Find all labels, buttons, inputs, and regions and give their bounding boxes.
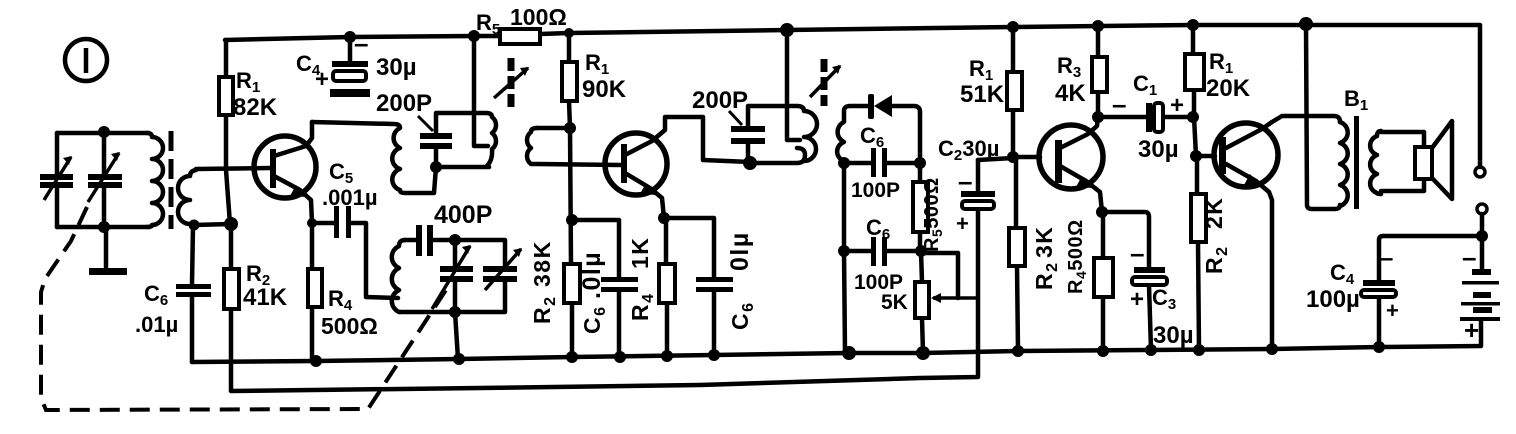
svg-text:C5: C5	[329, 159, 353, 187]
svg-text:200P: 200P	[376, 90, 432, 117]
svg-text:R1: R1	[585, 50, 609, 78]
svg-text:–: –	[958, 166, 972, 196]
svg-text:+: +	[1464, 315, 1479, 345]
svg-text:400P: 400P	[434, 201, 492, 229]
svg-text:R3: R3	[1057, 53, 1081, 81]
svg-text:R4500Ω: R4500Ω	[1065, 219, 1089, 294]
svg-text:–: –	[1130, 238, 1144, 268]
svg-text:R4: R4	[328, 286, 353, 314]
svg-text:4K: 4K	[1055, 80, 1086, 107]
svg-text:+: +	[1386, 298, 1399, 323]
svg-text:90K: 90K	[582, 76, 627, 103]
svg-text:–: –	[354, 28, 368, 58]
svg-text:C1: C1	[1133, 71, 1157, 99]
svg-text:100Ω: 100Ω	[510, 4, 567, 30]
svg-text:500Ω: 500Ω	[321, 313, 378, 339]
svg-text:C6: C6	[860, 123, 884, 151]
svg-text:R4: R4	[627, 292, 657, 321]
svg-text:R2: R2	[1201, 245, 1231, 274]
svg-text:C3: C3	[1152, 285, 1176, 313]
svg-text:–: –	[1380, 245, 1393, 272]
svg-text:82K: 82K	[233, 94, 278, 121]
svg-text:R1: R1	[1209, 49, 1233, 77]
svg-text:38K: 38K	[529, 240, 555, 287]
svg-text:100P: 100P	[851, 179, 900, 202]
svg-text:3K: 3K	[1031, 226, 1057, 258]
svg-text:C6: C6	[727, 301, 757, 330]
svg-text:2K: 2K	[1201, 197, 1227, 229]
svg-text:5K: 5K	[881, 291, 908, 314]
svg-text:R2: R2	[1031, 261, 1061, 290]
svg-text:–: –	[1112, 89, 1126, 119]
svg-text:.0lµ: .0lµ	[578, 251, 606, 299]
svg-text:30µ: 30µ	[1138, 136, 1179, 163]
svg-text:.01µ: .01µ	[135, 312, 178, 337]
svg-text:.001µ: .001µ	[322, 185, 378, 210]
svg-text:R5: R5	[476, 10, 500, 38]
svg-text:R1: R1	[236, 68, 260, 96]
svg-text:+: +	[1170, 92, 1184, 119]
svg-text:C4: C4	[1330, 260, 1355, 288]
svg-text:51K: 51K	[960, 81, 1005, 108]
svg-text:–: –	[1462, 242, 1476, 272]
svg-text:200P: 200P	[692, 87, 748, 114]
svg-text:R2: R2	[529, 295, 559, 324]
svg-text:R5500Ω: R5500Ω	[921, 177, 945, 252]
svg-text:C6: C6	[866, 215, 890, 243]
svg-text:R1: R1	[969, 56, 993, 84]
svg-text:C6: C6	[579, 305, 609, 334]
svg-text:+: +	[1130, 286, 1144, 313]
svg-text:1K: 1K	[627, 237, 653, 269]
svg-text:100µ: 100µ	[1306, 286, 1360, 313]
svg-text:30µ: 30µ	[376, 54, 417, 81]
svg-text:C230µ: C230µ	[938, 136, 999, 164]
svg-text:0lµ: 0lµ	[726, 231, 754, 271]
svg-text:B1: B1	[1344, 86, 1368, 114]
svg-text:41K: 41K	[243, 284, 288, 311]
svg-text:C6: C6	[144, 281, 168, 309]
svg-text:30µ: 30µ	[1153, 322, 1194, 349]
svg-text:+: +	[956, 211, 969, 236]
svg-text:20K: 20K	[1206, 75, 1251, 102]
svg-text:+: +	[315, 66, 329, 93]
